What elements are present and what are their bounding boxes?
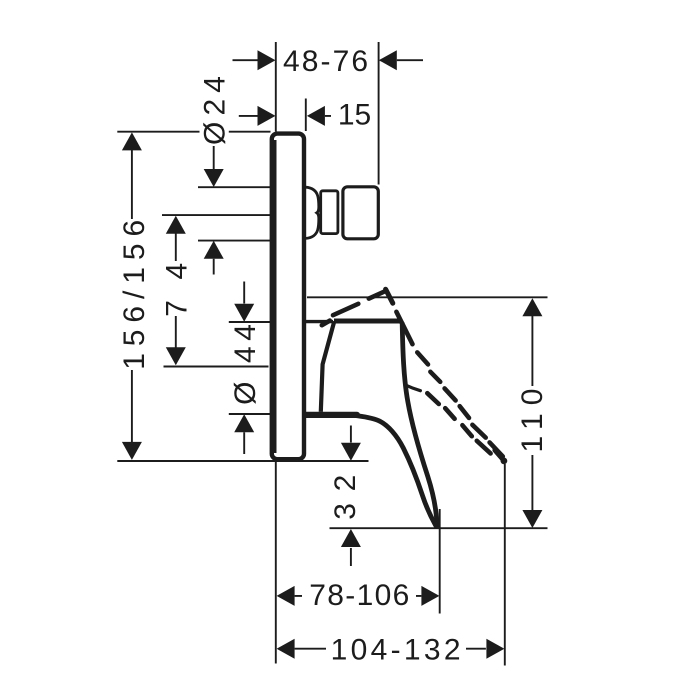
- arrowhead 156/156 bottom: [122, 442, 142, 460]
- svg-text:74: 74: [160, 263, 193, 317]
- dashed lever upper edge dash 6: [490, 442, 503, 456]
- svg-text:110: 110: [516, 389, 549, 453]
- extension line: nozzle bottom tick: [198, 240, 270, 242]
- arrowhead O44 bottom: [234, 414, 254, 432]
- handle body bottom: [306, 412, 357, 418]
- extension line: handle centerline (74 bottom): [164, 366, 269, 368]
- dimension 104-132 leader lines: [295, 648, 486, 650]
- spout bell: [306, 187, 319, 238]
- dashed lever nose dash 1: [322, 321, 330, 326]
- svg-text:48-76: 48-76: [283, 45, 368, 78]
- svg-text:Ø24: Ø24: [198, 76, 231, 145]
- svg-text:32: 32: [329, 475, 362, 520]
- extension line: 156/156 bottom: [117, 460, 368, 462]
- extension line: O44 top tick: [229, 321, 270, 323]
- arrowhead 74 bottom: [166, 347, 186, 365]
- arrowhead O24 bottom: [204, 241, 224, 259]
- handle body top: [334, 319, 402, 324]
- spout collar: [321, 191, 338, 234]
- dashed lever upper edge dash 2: [430, 372, 440, 382]
- lever left edge: [353, 415, 436, 526]
- dashed lever lower edge dash 3: [462, 425, 471, 436]
- dashed lever lower edge dash 2: [445, 408, 454, 419]
- arrowhead 156/156 top: [122, 132, 142, 150]
- arrowhead 110 top: [522, 298, 542, 316]
- dashed lever tip cap: [495, 450, 503, 459]
- arrowhead 32 top: [341, 443, 361, 461]
- extension line: front reference plane (top segment): [275, 42, 277, 132]
- handle body left edge: [321, 321, 335, 412]
- lever ridge spur: [406, 385, 421, 391]
- dashed lever nose dash 3: [369, 292, 384, 299]
- extension line: 78-106 right (lever tip): [439, 509, 441, 614]
- extension line: 104-132 right (dashed lever tip): [504, 464, 506, 666]
- arrowhead 78-106 right: [421, 586, 439, 606]
- dashed lever upper edge dash 3: [445, 388, 456, 400]
- dashed lever lower edge dash 1: [427, 393, 439, 404]
- dimension 156/156 line: [131, 150, 133, 442]
- arrowhead 48-76 left: [258, 50, 276, 70]
- dimension 74 line: [175, 234, 177, 348]
- arrowhead O24 top: [204, 169, 224, 187]
- extension line: 15 right (plate back face): [305, 99, 307, 132]
- dimension 32 line: [350, 426, 352, 567]
- dimension O24 line: [213, 146, 215, 275]
- arrowhead 15 left: [258, 106, 276, 126]
- extension line: nozzle top tick: [198, 186, 270, 188]
- extension line: 110 bottom (lever down plane): [330, 527, 548, 529]
- dashed lever nose cap: [386, 289, 393, 303]
- dimension 15 leader lines: [239, 115, 331, 117]
- handle stem: [306, 320, 333, 323]
- escutcheon plate front face bar: [272, 140, 277, 453]
- extension line: 48-76 right: [378, 42, 380, 185]
- dimension 48-76 leader lines: [233, 59, 424, 61]
- arrowhead 78-106 left: [277, 586, 295, 606]
- arrowhead 32 bottom: [341, 529, 361, 547]
- escutcheon plate outline: [272, 134, 304, 460]
- arrowhead 48-76 right: [379, 50, 397, 70]
- dashed lever upper edge dash 5: [472, 425, 485, 438]
- arrowhead 110 bottom: [522, 510, 542, 528]
- spout end cap: [343, 187, 378, 239]
- extension line: 110 top (lever up plane): [307, 296, 548, 298]
- arrowhead 15 right: [307, 106, 325, 126]
- svg-text:156/156: 156/156: [118, 220, 151, 370]
- arrowhead O44 top: [234, 304, 254, 322]
- extension line: nozzle centerline (74 top): [162, 214, 270, 216]
- dashed lever nose dash 2: [333, 304, 358, 315]
- dimension 78-106 leader lines: [295, 595, 422, 597]
- dashed lever upper edge dash 0: [396, 312, 412, 344]
- svg-text:44: 44: [229, 324, 262, 363]
- dashed lever lower edge dash 4: [477, 441, 491, 454]
- arrowhead 104-132 left: [277, 639, 295, 659]
- dimension O44 line: [243, 282, 245, 455]
- extension line: O44 bottom tick: [229, 413, 270, 415]
- lever right edge: [402, 324, 437, 526]
- svg-text:Ø: Ø: [229, 382, 262, 405]
- extension line: 156/156 top (gap at text): [117, 131, 270, 133]
- dashed lever upper edge dash 1: [417, 352, 428, 364]
- extension line: front reference plane (bottom segment): [275, 462, 277, 664]
- svg-text:78-106: 78-106: [309, 579, 409, 612]
- dashed lever tip end blob: [501, 458, 508, 465]
- dashed lever upper edge dash 4: [460, 406, 469, 418]
- dimension 110 line: [531, 316, 533, 511]
- svg-text:104-132: 104-132: [331, 633, 461, 666]
- svg-text:15: 15: [338, 99, 371, 132]
- arrowhead 104-132 right: [486, 639, 504, 659]
- arrowhead 74 top: [166, 216, 186, 234]
